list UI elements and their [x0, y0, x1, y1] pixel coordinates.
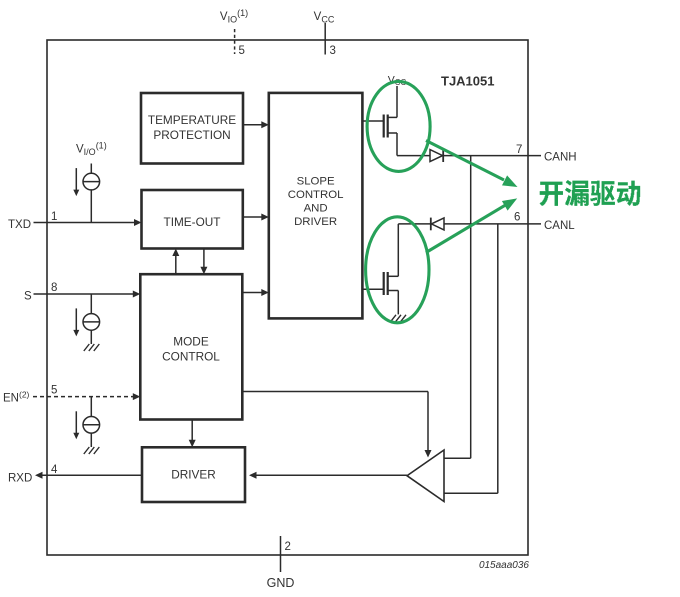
svg-text:CONTROL: CONTROL: [162, 350, 220, 364]
svg-text:AND: AND: [304, 203, 328, 215]
svg-text:015aaa036: 015aaa036: [479, 560, 529, 571]
svg-text:CONTROL: CONTROL: [288, 189, 344, 201]
svg-text:CANH: CANH: [544, 151, 577, 163]
svg-text:MODE: MODE: [173, 335, 209, 349]
svg-text:SLOPE: SLOPE: [297, 176, 335, 188]
svg-text:6: 6: [514, 212, 520, 224]
svg-text:1: 1: [51, 211, 57, 223]
svg-text:DRIVER: DRIVER: [171, 468, 216, 482]
svg-text:CANL: CANL: [544, 220, 575, 232]
svg-text:3: 3: [330, 45, 336, 57]
svg-text:DRIVER: DRIVER: [294, 216, 337, 228]
svg-text:TXD: TXD: [8, 219, 31, 231]
svg-text:5: 5: [239, 45, 245, 57]
svg-text:TJA1051: TJA1051: [441, 74, 494, 89]
svg-text:RXD: RXD: [8, 473, 32, 485]
svg-text:GND: GND: [267, 576, 295, 590]
svg-text:7: 7: [516, 144, 522, 156]
svg-text:TEMPERATURE: TEMPERATURE: [148, 113, 236, 127]
svg-text:4: 4: [51, 464, 58, 476]
svg-text:2: 2: [285, 541, 291, 553]
svg-text:5: 5: [51, 385, 57, 397]
svg-text:S: S: [24, 291, 32, 303]
svg-text:8: 8: [51, 282, 57, 294]
svg-text:TIME-OUT: TIME-OUT: [163, 215, 220, 229]
svg-text:PROTECTION: PROTECTION: [153, 128, 230, 142]
